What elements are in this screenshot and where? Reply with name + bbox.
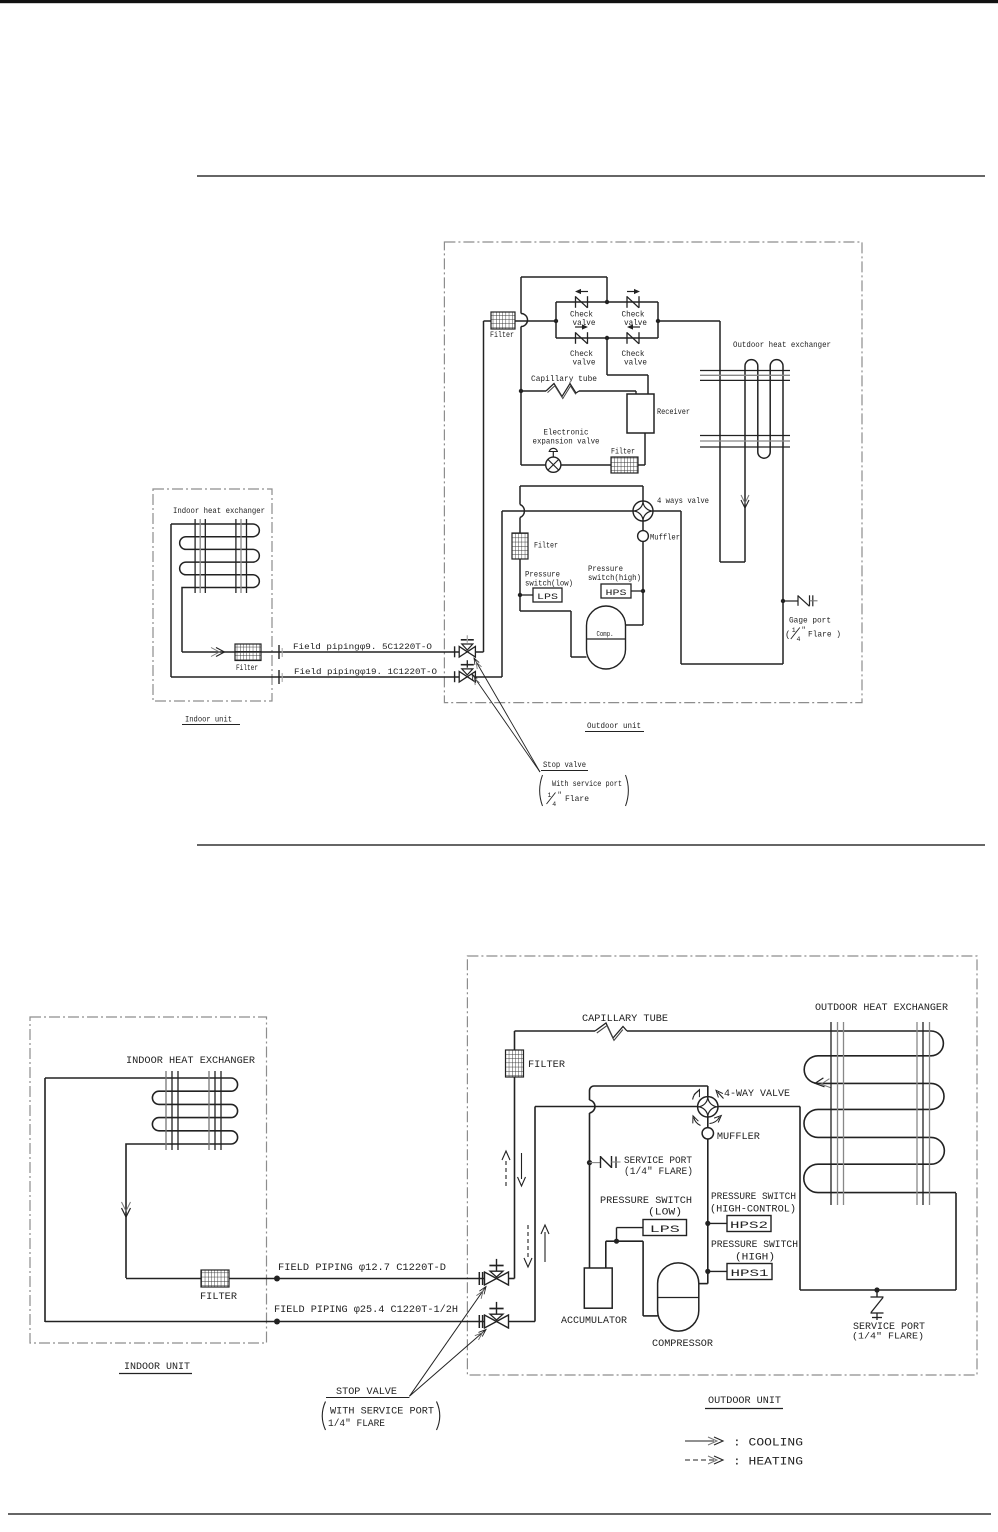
- svg-text:FIELD PIPING φ12.7 C1220T-D: FIELD PIPING φ12.7 C1220T-D: [278, 1263, 446, 1274]
- service port (outdoor coil): [874, 1287, 879, 1292]
- top wire from branch to bridge top node: [521, 276, 607, 278]
- svg-text:Indoor heat exchanger: Indoor heat exchanger: [173, 507, 265, 516]
- vertical branch with hop over filter wire x=521: [520, 277, 522, 314]
- svg-text:CAPILLARY TUBE: CAPILLARY TUBE: [582, 1014, 668, 1025]
- riser bridge to coil x=720: [719, 321, 721, 562]
- riser from stop valve 2 to 4-way valve line (top) x=502: [501, 511, 503, 677]
- svg-text:(HIGH-CONTROL): (HIGH-CONTROL): [710, 1204, 796, 1216]
- svg-text:4: 4: [797, 636, 801, 643]
- capillary tube (top): [521, 390, 546, 392]
- svg-text:SERVICE PORT: SERVICE PORT: [624, 1156, 692, 1167]
- suction line stop valve 2 to 4-way valve: [590, 1106, 698, 1108]
- svg-text:FIELD PIPING φ25.4 C1220T-1/2H: FIELD PIPING φ25.4 C1220T-1/2H: [274, 1304, 458, 1316]
- svg-text:HPS1: HPS1: [731, 1269, 769, 1280]
- indoor unit dashed enclosure (bottom diagram): [30, 1017, 267, 1343]
- muffler (bottom): [707, 1117, 709, 1128]
- suction loop top wire y=1086: [590, 1086, 708, 1100]
- stop valve 1 (bottom, liquid): [485, 1272, 497, 1285]
- check valve bottom-right: [626, 332, 628, 344]
- svg-text:Outdoor unit: Outdoor unit: [587, 722, 641, 731]
- flow arrow on liquid line (top): [216, 648, 225, 657]
- svg-text:FILTER: FILTER: [528, 1060, 565, 1071]
- 4-way valve (bottom): [707, 1086, 709, 1097]
- svg-text:Field pipingφ9. 5C1220T-O: Field pipingφ9. 5C1220T-O: [293, 643, 432, 652]
- svg-text:Flare ): Flare ): [808, 631, 841, 640]
- svg-text:1/4″ FLARE: 1/4″ FLARE: [328, 1418, 385, 1430]
- svg-text:LPS: LPS: [650, 1225, 680, 1236]
- svg-text:LPS: LPS: [537, 592, 558, 602]
- outdoor unit dashed enclosure (bottom diagram): [467, 956, 977, 1375]
- gas line 4-way valve to coil: [680, 511, 682, 664]
- coil flow arrow (bottom outdoor): [815, 1078, 825, 1087]
- receiver: [627, 394, 654, 433]
- svg-text:WITH SERVICE PORT: WITH SERVICE PORT: [330, 1407, 434, 1418]
- horizontal rule above top diagram: [197, 175, 985, 177]
- heating flow arrow (dashed up) near liquid riser: [505, 1158, 507, 1186]
- outdoor unit dashed enclosure (top diagram): [444, 242, 862, 703]
- svg-text:PRESSURE SWITCH: PRESSURE SWITCH: [711, 1240, 798, 1251]
- horizontal rule between diagrams: [197, 844, 985, 846]
- svg-text:Pressure: Pressure: [525, 571, 560, 580]
- svg-text:Indoor unit: Indoor unit: [185, 716, 232, 725]
- svg-text:Gage port: Gage port: [789, 617, 831, 626]
- top wire of 4-way valve loop: [520, 485, 643, 487]
- stop valve 1 (top, liquid): [459, 647, 467, 658]
- svg-text:Capillary tube: Capillary tube: [531, 375, 597, 384]
- 4-way valve flow arrows: [693, 1091, 699, 1100]
- svg-text:MUFFLER: MUFFLER: [717, 1132, 760, 1143]
- wire filter to bridge left node: [515, 320, 556, 322]
- svg-text:″: ″: [802, 627, 806, 635]
- gage port: [781, 599, 785, 603]
- stop valve 2 (bottom, gas): [485, 1315, 497, 1328]
- flare ticks before stop valve 1 (bottom): [478, 1272, 480, 1285]
- outdoor coil crossing tubes (bottom): [830, 1022, 832, 1205]
- indoor heat exchanger coil (top): [171, 524, 259, 652]
- wire 4-way valve to right riser: [653, 510, 681, 512]
- wire expansion valve to branch: [521, 464, 546, 466]
- svg-text:HPS: HPS: [606, 588, 627, 598]
- HPS1 switch: [705, 1269, 710, 1274]
- indoor coil crossing tubes (top): [194, 519, 196, 593]
- stop valve 1 right stub: [475, 651, 483, 653]
- svg-text:Electronic: Electronic: [544, 429, 589, 438]
- check valve top-left: [575, 296, 577, 308]
- svg-text:STOP VALVE: STOP VALVE: [336, 1387, 397, 1398]
- wire to compressor suction: [520, 610, 571, 612]
- outdoor coil (top): [720, 561, 745, 563]
- filter at bridge inlet (top): [491, 312, 515, 329]
- outdoor coil crossing tubes (top): [700, 370, 790, 372]
- svg-text:PRESSURE SWITCH: PRESSURE SWITCH: [711, 1192, 796, 1203]
- capillary tube (bottom): [515, 1030, 596, 1032]
- wire bridge right node to outdoor coil riser: [658, 320, 720, 322]
- svg-text:: COOLING: : COOLING: [733, 1438, 803, 1450]
- svg-text:Flare: Flare: [565, 795, 589, 804]
- svg-text:With service port: With service port: [552, 780, 622, 789]
- svg-text:valve: valve: [624, 359, 647, 368]
- capillary branch node: [519, 389, 523, 393]
- HPS2 switch: [705, 1221, 710, 1226]
- legend heating arrow: [685, 1459, 714, 1461]
- outdoor filter (bottom): [506, 1050, 524, 1077]
- indoor unit left pipe (bottom): [44, 1078, 46, 1322]
- svg-text:Field pipingφ19. 1C1220T-O: Field pipingφ19. 1C1220T-O: [294, 668, 437, 677]
- svg-text:expansion valve: expansion valve: [533, 438, 600, 447]
- stop valve 2 (top, gas): [459, 671, 467, 682]
- svg-text:Muffler: Muffler: [650, 534, 680, 543]
- field pipe liquid line (top) y=652: [182, 651, 459, 653]
- page top border bar: [0, 0, 998, 3]
- svg-text:switch(low): switch(low): [525, 580, 573, 589]
- svg-text:Filter: Filter: [534, 542, 558, 551]
- riser from stop valve 1 to filter (top) x=483.5: [483, 321, 485, 652]
- svg-text:Receiver: Receiver: [657, 408, 690, 417]
- heating flow arrow (dashed down) near gas riser: [527, 1225, 529, 1260]
- gas line 4-way to outdoor coil: [718, 1106, 800, 1108]
- svg-text:valve: valve: [573, 359, 596, 368]
- liquid field pipe (bottom) y=1278.5: [126, 1278, 201, 1280]
- accumulator: [584, 1268, 612, 1308]
- legend cooling arrow: [685, 1440, 714, 1442]
- svg-text:(1/4″ FLARE): (1/4″ FLARE): [852, 1331, 924, 1342]
- gas riser x=535: [534, 1107, 536, 1322]
- liquid riser x=514.5: [514, 1077, 516, 1279]
- svg-text:switch(high): switch(high): [588, 574, 641, 583]
- svg-text:Stop valve: Stop valve: [543, 761, 586, 770]
- check valve bridge rails: [556, 301, 658, 303]
- svg-text:Comp.: Comp.: [597, 631, 614, 639]
- service port (suction): [587, 1160, 592, 1165]
- low pressure switch LPS: [520, 594, 533, 596]
- 4 ways valve: [642, 486, 644, 501]
- hop over suction line x=589.5: [590, 1100, 595, 1113]
- stop valve callout leader lines (top): [474, 658, 540, 772]
- svg-text:PRESSURE SWITCH: PRESSURE SWITCH: [600, 1196, 692, 1207]
- indoor heat exchanger coil (bottom): [45, 1078, 238, 1278]
- svg-text:(LOW): (LOW): [648, 1207, 682, 1219]
- svg-text:INDOOR UNIT: INDOOR UNIT: [124, 1362, 190, 1373]
- outdoor coil (bottom): [804, 1031, 956, 1193]
- svg-text:Filter: Filter: [611, 448, 635, 457]
- flare joint ticks on gas line (top): [278, 670, 280, 684]
- coil flow arrow (top): [741, 500, 749, 508]
- indoor coil crossing tubes (bottom): [165, 1071, 167, 1150]
- indoor filter (top): [235, 644, 261, 661]
- svg-text:4: 4: [552, 801, 556, 808]
- indoor unit left pipe (top): [170, 524, 172, 677]
- svg-text:OUTDOOR UNIT: OUTDOOR UNIT: [708, 1396, 781, 1407]
- bridge junction nodes: [605, 300, 609, 304]
- svg-text:(: (: [785, 630, 790, 640]
- suction line to 4-way valve y=511: [502, 510, 633, 512]
- stop valve callout leader lines (bottom): [409, 1287, 486, 1397]
- cooling flow arrow (solid up) near gas riser: [544, 1232, 546, 1262]
- svg-text:Pressure: Pressure: [588, 565, 623, 574]
- svg-text:ACCUMULATOR: ACCUMULATOR: [561, 1316, 627, 1327]
- indoor filter (bottom): [201, 1270, 229, 1287]
- svg-text:INDOOR HEAT EXCHANGER: INDOOR HEAT EXCHANGER: [126, 1056, 255, 1067]
- left leg with hop x=520: [519, 486, 521, 505]
- svg-text:valve: valve: [624, 319, 647, 328]
- gas field pipe (bottom) y=1321.5: [45, 1321, 485, 1323]
- field pipe gas line (top) y=677: [171, 676, 459, 678]
- svg-text:: HEATING: : HEATING: [733, 1457, 803, 1469]
- liquid line filter (top): [611, 457, 638, 473]
- svg-text:HPS2: HPS2: [730, 1221, 768, 1232]
- muffler (top): [642, 521, 644, 531]
- suction filter (top): [512, 533, 528, 559]
- electronic expansion valve: [546, 457, 561, 472]
- svg-text:(1/4″ FLARE): (1/4″ FLARE): [624, 1166, 693, 1178]
- svg-text:4-WAY VALVE: 4-WAY VALVE: [724, 1089, 790, 1100]
- wire filter to expansion valve: [561, 464, 611, 466]
- svg-text:Outdoor heat exchanger: Outdoor heat exchanger: [733, 341, 831, 350]
- stop valve 2 right stub: [475, 676, 502, 678]
- svg-text:(HIGH): (HIGH): [735, 1252, 775, 1264]
- flare ticks before stop valve 2 (bottom): [478, 1315, 480, 1328]
- check valve bottom-left: [575, 332, 577, 344]
- check valve top-right: [626, 296, 628, 308]
- cooling flow arrow (solid down) near liquid riser: [521, 1153, 523, 1179]
- svg-text:4 ways valve: 4 ways valve: [657, 497, 709, 506]
- compressor (top): [587, 606, 626, 669]
- svg-text:COMPRESSOR: COMPRESSOR: [652, 1339, 713, 1350]
- wire muffler to compressor discharge: [642, 541, 644, 625]
- high pressure switch HPS: [601, 584, 631, 598]
- svg-text:Filter: Filter: [490, 331, 514, 340]
- wire receiver to liquid filter: [644, 433, 646, 465]
- svg-text:″: ″: [558, 792, 562, 800]
- svg-text:OUTDOOR HEAT EXCHANGER: OUTDOOR HEAT EXCHANGER: [815, 1003, 948, 1014]
- suction tee accumulator to compressor: [606, 1240, 643, 1242]
- indoor unit dashed enclosure (top diagram): [153, 489, 272, 701]
- compressor (bottom): [658, 1263, 699, 1331]
- coil down arrow (bottom indoor): [122, 1208, 131, 1217]
- svg-text:Filter: Filter: [236, 664, 258, 673]
- flare joint ticks on liquid line (top): [278, 645, 280, 659]
- svg-text:FILTER: FILTER: [200, 1292, 237, 1303]
- wire filter to low pressure switch node: [519, 559, 521, 611]
- wire bridge bottom to receiver: [606, 338, 608, 375]
- compressor discharge to muffler line: [699, 1283, 708, 1285]
- svg-text:valve: valve: [573, 319, 596, 328]
- LPS switch: [643, 1220, 687, 1236]
- bottom page rule: [8, 1513, 991, 1515]
